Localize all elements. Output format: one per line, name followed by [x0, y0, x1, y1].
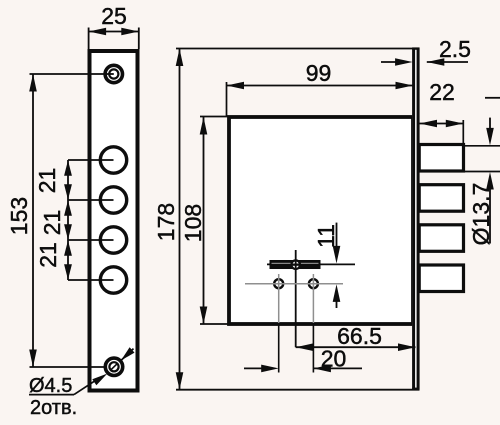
latch hub [290, 259, 301, 270]
deadbolt 4 [419, 265, 463, 292]
dim 11 [313, 223, 340, 308]
deadbolt 2 [419, 185, 463, 212]
screw left vertical centerline [278, 274, 280, 323]
svg-text:21: 21 [39, 210, 65, 236]
deadbolt 3 [419, 225, 463, 252]
svg-text:153: 153 [6, 197, 32, 235]
dim 99 [227, 60, 414, 117]
svg-text:108: 108 [180, 204, 206, 242]
svg-text:21: 21 [35, 242, 61, 268]
screw circle left [274, 279, 283, 288]
svg-text:Ø4.5: Ø4.5 [29, 375, 72, 397]
dim 25 [89, 3, 139, 49]
faceplate edge view [412, 48, 419, 390]
svg-text:11: 11 [313, 224, 339, 248]
svg-text:22: 22 [429, 79, 455, 105]
svg-text:21: 21 [34, 168, 60, 194]
faceplate front view [90, 51, 138, 391]
dim 20 [244, 346, 362, 373]
svg-text:25: 25 [101, 3, 127, 29]
svg-text:2.5: 2.5 [439, 36, 471, 62]
svg-text:178: 178 [153, 203, 179, 241]
svg-text:2отв.: 2отв. [30, 397, 77, 419]
dim 2.5 [381, 36, 471, 66]
lock body [229, 117, 413, 324]
latch centerline vertical [295, 250, 297, 347]
screw hole top [104, 65, 123, 82]
svg-text:99: 99 [306, 60, 332, 86]
latch centerline horizontal [267, 263, 355, 265]
deadbolt 1 [419, 145, 463, 172]
dim 22 [420, 79, 464, 146]
bolt hole circle 3 [100, 227, 126, 253]
screw circle right [309, 279, 318, 288]
dim 178 [153, 49, 420, 390]
dim 66.5 [296, 323, 416, 351]
label D4.5 2 holes [29, 347, 135, 419]
centerline through screws [245, 283, 343, 285]
dim D13.7 [464, 98, 500, 246]
latch bar [270, 260, 321, 269]
bolt hole circle 1 [100, 147, 126, 173]
bolt hole circle 2 [100, 187, 126, 213]
dim 108 [180, 117, 229, 325]
screw right vertical centerline [312, 274, 314, 323]
bolt hole circle 4 [100, 267, 126, 293]
dim 21 x3 [34, 160, 114, 280]
dim 153 [6, 74, 106, 367]
screw hole bottom [105, 358, 122, 375]
